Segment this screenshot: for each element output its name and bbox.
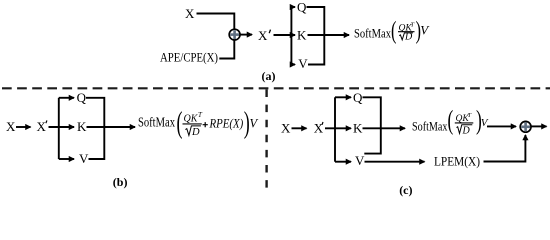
svg-text:X: X: [258, 28, 268, 43]
svg-text:(c): (c): [399, 183, 412, 197]
svg-text:K: K: [353, 121, 363, 136]
svg-text:SoftMax: SoftMax: [412, 120, 448, 134]
svg-text:D: D: [462, 126, 471, 137]
svg-text:SoftMax: SoftMax: [354, 27, 392, 41]
svg-text:(: (: [177, 105, 183, 140]
svg-text:(a): (a): [262, 69, 276, 83]
svg-text:T: T: [468, 112, 472, 119]
svg-text:T: T: [411, 22, 415, 29]
svg-text:T: T: [198, 111, 203, 119]
svg-text:LPEM(X): LPEM(X): [434, 154, 480, 169]
svg-text:X: X: [37, 119, 47, 134]
svg-text:Q: Q: [77, 90, 87, 105]
svg-text:K: K: [297, 27, 307, 42]
svg-text:Q: Q: [353, 90, 363, 105]
svg-text:Q: Q: [297, 0, 307, 15]
svg-text:X: X: [281, 121, 291, 136]
svg-text:V: V: [420, 23, 430, 38]
svg-text:RPE(X): RPE(X): [209, 116, 244, 131]
svg-text:V: V: [355, 153, 365, 168]
svg-text:X: X: [6, 119, 16, 134]
svg-text:V: V: [79, 151, 89, 166]
svg-text:(: (: [448, 105, 454, 135]
svg-text:D: D: [191, 127, 200, 138]
svg-text:D: D: [404, 31, 413, 42]
svg-text:SoftMax: SoftMax: [138, 115, 175, 130]
svg-text:V: V: [250, 117, 259, 131]
svg-text:V: V: [298, 56, 308, 71]
svg-text:K: K: [77, 119, 87, 134]
svg-text:X: X: [185, 6, 195, 21]
svg-text:QK: QK: [184, 114, 199, 125]
svg-text:APE/CPE(X): APE/CPE(X): [160, 50, 218, 65]
svg-text:(b): (b): [113, 175, 128, 189]
svg-text:(: (: [391, 18, 397, 45]
